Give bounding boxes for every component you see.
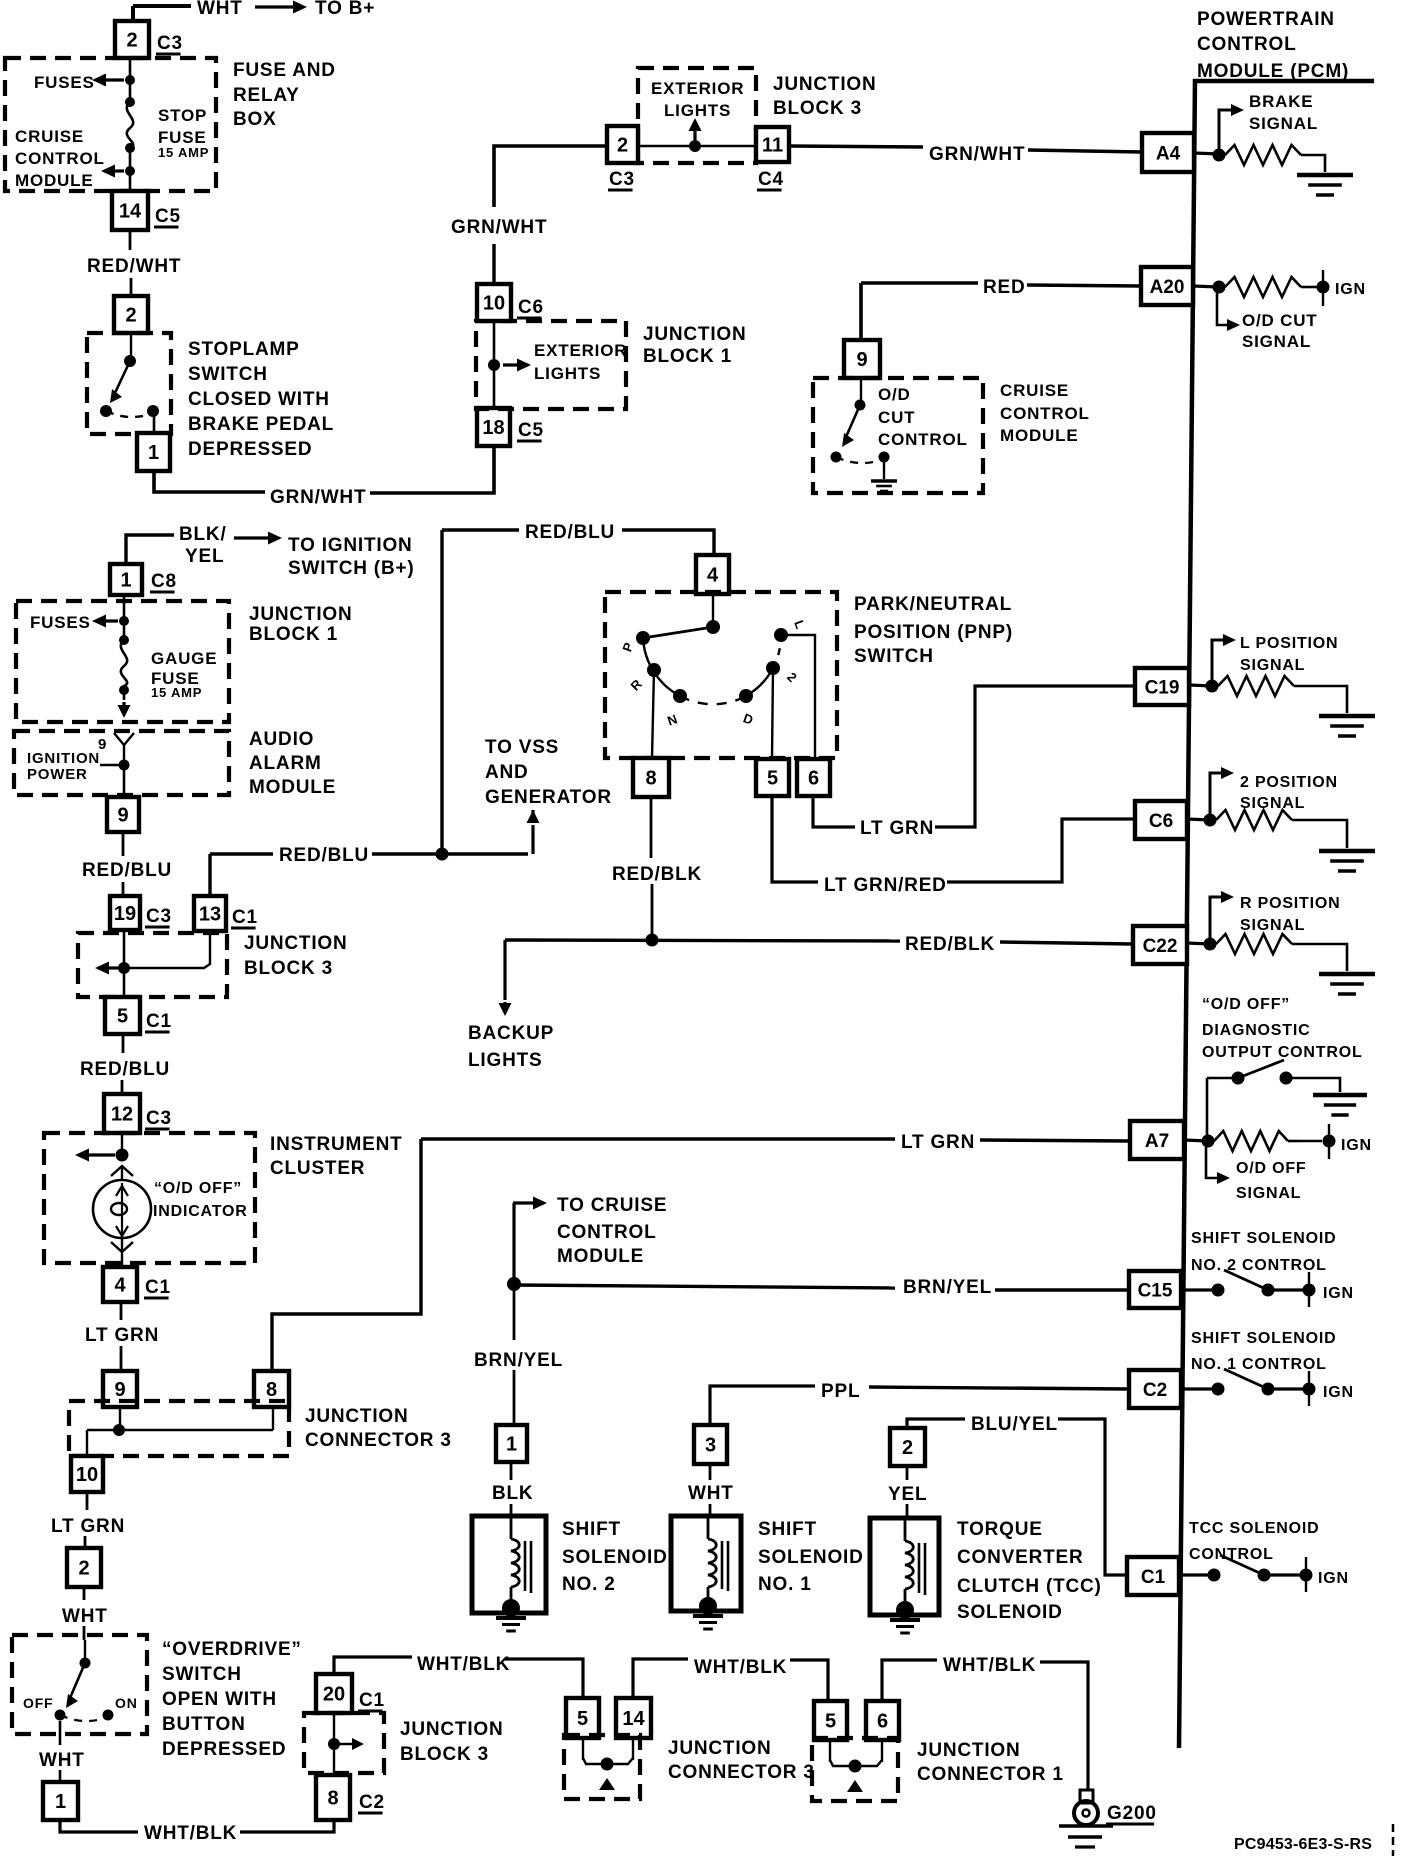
svg-text:YEL: YEL xyxy=(185,546,224,567)
svg-text:C2: C2 xyxy=(1143,1380,1167,1401)
svg-text:LIGHTS: LIGHTS xyxy=(468,1050,542,1071)
svg-text:15 AMP: 15 AMP xyxy=(151,685,202,700)
svg-text:CONTROL: CONTROL xyxy=(15,149,105,168)
svg-text:YEL: YEL xyxy=(888,1484,927,1505)
svg-text:11: 11 xyxy=(762,135,783,157)
svg-text:C4: C4 xyxy=(758,169,784,190)
svg-text:LIGHTS: LIGHTS xyxy=(534,364,601,383)
svg-text:TO IGNITION: TO IGNITION xyxy=(288,535,413,556)
svg-text:SOLENOID: SOLENOID xyxy=(957,1602,1063,1623)
svg-text:STOP: STOP xyxy=(158,106,207,125)
svg-text:WHT/BLK: WHT/BLK xyxy=(144,1823,237,1844)
svg-text:FUSES: FUSES xyxy=(34,73,95,92)
svg-text:POWERTRAIN: POWERTRAIN xyxy=(1197,9,1335,30)
svg-text:BUTTON: BUTTON xyxy=(162,1714,246,1735)
svg-text:WHT: WHT xyxy=(688,1483,734,1504)
svg-text:C1: C1 xyxy=(359,1690,385,1711)
svg-text:FUSES: FUSES xyxy=(30,613,91,632)
svg-text:SIGNAL: SIGNAL xyxy=(1236,1185,1301,1202)
svg-text:2: 2 xyxy=(78,1558,89,1580)
svg-text:WHT/BLK: WHT/BLK xyxy=(694,1657,787,1678)
svg-text:NO. 2: NO. 2 xyxy=(562,1574,616,1595)
svg-text:RELAY: RELAY xyxy=(233,85,300,106)
svg-text:SWITCH: SWITCH xyxy=(162,1664,242,1685)
svg-text:CONTROL: CONTROL xyxy=(557,1222,657,1243)
svg-text:TO VSS: TO VSS xyxy=(485,737,559,758)
svg-text:C5: C5 xyxy=(518,420,544,441)
svg-text:INSTRUMENT: INSTRUMENT xyxy=(270,1134,403,1155)
svg-text:RED/BLU: RED/BLU xyxy=(279,845,369,866)
svg-text:CUT: CUT xyxy=(878,408,915,427)
svg-text:LT GRN: LT GRN xyxy=(901,1132,975,1153)
svg-text:PC9453-6E3-S-RS: PC9453-6E3-S-RS xyxy=(1234,1836,1372,1853)
svg-text:SWITCH (B+): SWITCH (B+) xyxy=(288,558,414,579)
svg-text:ALARM: ALARM xyxy=(249,753,322,774)
svg-text:O/D CUT: O/D CUT xyxy=(1242,311,1317,330)
svg-text:A7: A7 xyxy=(1145,1131,1169,1152)
svg-text:IGN: IGN xyxy=(1335,281,1366,298)
svg-text:GRN/WHT: GRN/WHT xyxy=(270,487,366,508)
svg-text:A4: A4 xyxy=(1156,143,1181,164)
svg-text:IGN: IGN xyxy=(1341,1137,1372,1154)
svg-text:JUNCTION: JUNCTION xyxy=(400,1719,504,1740)
svg-text:“O/D OFF”: “O/D OFF” xyxy=(154,1180,242,1197)
svg-text:WHT/BLK: WHT/BLK xyxy=(417,1654,510,1675)
svg-text:MODULE: MODULE xyxy=(1000,426,1078,445)
svg-text:JUNCTION: JUNCTION xyxy=(773,74,877,95)
svg-text:FUSE AND: FUSE AND xyxy=(233,60,336,81)
svg-text:20: 20 xyxy=(323,1684,345,1706)
svg-text:MODULE: MODULE xyxy=(557,1246,644,1267)
svg-text:C8: C8 xyxy=(151,571,177,592)
svg-text:AND: AND xyxy=(485,762,529,783)
svg-text:SIGNAL: SIGNAL xyxy=(1240,795,1305,812)
svg-text:CONNECTOR 3: CONNECTOR 3 xyxy=(668,1762,815,1783)
svg-text:15 AMP: 15 AMP xyxy=(158,145,209,160)
svg-text:EXTERIOR: EXTERIOR xyxy=(651,79,744,98)
svg-text:STOPLAMP: STOPLAMP xyxy=(188,339,300,360)
svg-text:R POSITION: R POSITION xyxy=(1240,895,1340,912)
svg-text:JUNCTION: JUNCTION xyxy=(668,1738,772,1759)
svg-text:GENERATOR: GENERATOR xyxy=(485,787,612,808)
svg-text:JUNCTION: JUNCTION xyxy=(305,1406,409,1427)
svg-text:C19: C19 xyxy=(1145,677,1180,698)
svg-text:2: 2 xyxy=(126,30,137,52)
svg-text:“O/D OFF”: “O/D OFF” xyxy=(1202,996,1290,1013)
svg-text:4: 4 xyxy=(114,1275,126,1297)
svg-text:5: 5 xyxy=(825,1711,836,1733)
svg-text:C22: C22 xyxy=(1143,936,1178,957)
svg-text:CONNECTOR 3: CONNECTOR 3 xyxy=(305,1430,452,1451)
svg-text:2 POSITION: 2 POSITION xyxy=(1240,774,1338,791)
svg-text:IGNITION: IGNITION xyxy=(27,750,100,767)
svg-text:4: 4 xyxy=(707,565,719,587)
svg-text:GRN/WHT: GRN/WHT xyxy=(929,144,1025,165)
svg-text:14: 14 xyxy=(119,201,142,223)
svg-text:CLUSTER: CLUSTER xyxy=(270,1158,365,1179)
svg-text:WHT: WHT xyxy=(62,1606,108,1627)
svg-text:9: 9 xyxy=(114,1379,125,1401)
svg-text:C1: C1 xyxy=(232,907,258,928)
svg-text:GAUGE: GAUGE xyxy=(151,649,217,668)
svg-text:9: 9 xyxy=(856,349,867,371)
svg-text:C1: C1 xyxy=(146,1011,172,1032)
svg-text:RED/BLU: RED/BLU xyxy=(525,522,615,543)
svg-text:SWITCH: SWITCH xyxy=(854,646,934,667)
svg-text:BRN/YEL: BRN/YEL xyxy=(903,1277,992,1298)
svg-text:TORQUE: TORQUE xyxy=(957,1519,1043,1540)
svg-text:SOLENOID: SOLENOID xyxy=(758,1547,864,1568)
svg-text:WHT/BLK: WHT/BLK xyxy=(943,1655,1036,1676)
svg-text:L POSITION: L POSITION xyxy=(1240,635,1338,652)
svg-text:OFF: OFF xyxy=(23,1695,53,1711)
svg-text:C3: C3 xyxy=(146,906,172,927)
svg-text:10: 10 xyxy=(483,293,505,315)
svg-text:ON: ON xyxy=(115,1695,138,1711)
svg-text:6: 6 xyxy=(808,768,819,790)
svg-text:PPL: PPL xyxy=(821,1381,860,1402)
svg-text:12: 12 xyxy=(111,1104,133,1126)
svg-text:BACKUP: BACKUP xyxy=(468,1023,554,1044)
svg-text:OPEN WITH: OPEN WITH xyxy=(162,1689,277,1710)
svg-text:SIGNAL: SIGNAL xyxy=(1249,114,1318,133)
svg-text:RED/BLK: RED/BLK xyxy=(612,864,702,885)
svg-text:BOX: BOX xyxy=(233,109,277,130)
svg-text:NO. 2 CONTROL: NO. 2 CONTROL xyxy=(1191,1257,1327,1274)
svg-text:2: 2 xyxy=(125,305,136,327)
svg-text:GRN/WHT: GRN/WHT xyxy=(451,217,547,238)
svg-text:LIGHTS: LIGHTS xyxy=(664,101,731,120)
svg-text:BLK: BLK xyxy=(492,1483,533,1504)
svg-text:19: 19 xyxy=(114,903,136,925)
svg-text:C2: C2 xyxy=(359,1792,385,1813)
svg-text:SHIFT: SHIFT xyxy=(562,1519,621,1540)
svg-text:C5: C5 xyxy=(155,206,181,227)
svg-text:TCC SOLENOID: TCC SOLENOID xyxy=(1189,1520,1320,1537)
svg-text:TO B+: TO B+ xyxy=(315,0,375,19)
svg-text:NO. 1 CONTROL: NO. 1 CONTROL xyxy=(1191,1356,1327,1373)
svg-text:BLOCK 3: BLOCK 3 xyxy=(244,958,333,979)
svg-text:RED/BLU: RED/BLU xyxy=(80,1059,170,1080)
svg-text:5: 5 xyxy=(117,1006,128,1028)
svg-text:1: 1 xyxy=(120,570,131,592)
svg-text:WHT: WHT xyxy=(39,1750,85,1771)
svg-text:8: 8 xyxy=(266,1379,277,1401)
svg-text:BLOCK 3: BLOCK 3 xyxy=(400,1744,489,1765)
svg-text:DEPRESSED: DEPRESSED xyxy=(162,1739,286,1760)
svg-text:WHT: WHT xyxy=(197,0,243,19)
svg-text:SWITCH: SWITCH xyxy=(188,364,268,385)
svg-text:POSITION (PNP): POSITION (PNP) xyxy=(854,622,1013,643)
svg-text:C3: C3 xyxy=(146,1108,172,1129)
svg-text:LT GRN: LT GRN xyxy=(51,1516,125,1537)
svg-text:CONVERTER: CONVERTER xyxy=(957,1547,1084,1568)
svg-text:BLOCK 1: BLOCK 1 xyxy=(643,346,732,367)
svg-text:BRAKE: BRAKE xyxy=(1249,92,1313,111)
svg-text:IGN: IGN xyxy=(1318,1570,1349,1587)
svg-text:CONTROL: CONTROL xyxy=(878,430,968,449)
svg-text:BLU/YEL: BLU/YEL xyxy=(971,1414,1058,1435)
svg-text:CONTROL: CONTROL xyxy=(1197,34,1297,55)
svg-text:C1: C1 xyxy=(145,1277,171,1298)
svg-text:C6: C6 xyxy=(1149,811,1173,832)
svg-text:C3: C3 xyxy=(157,33,183,54)
svg-text:C1: C1 xyxy=(1141,1567,1166,1588)
svg-text:DIAGNOSTIC: DIAGNOSTIC xyxy=(1202,1022,1310,1039)
svg-text:C6: C6 xyxy=(518,297,544,318)
svg-text:10: 10 xyxy=(76,1464,98,1486)
svg-text:1: 1 xyxy=(506,1434,517,1456)
svg-text:A20: A20 xyxy=(1150,277,1185,298)
svg-text:RED: RED xyxy=(983,277,1026,298)
svg-text:AUDIO: AUDIO xyxy=(249,729,314,750)
svg-text:1: 1 xyxy=(148,442,159,464)
svg-text:MODULE: MODULE xyxy=(249,777,336,798)
svg-text:“OVERDRIVE”: “OVERDRIVE” xyxy=(162,1639,302,1660)
svg-text:O/D: O/D xyxy=(878,385,911,404)
svg-text:5: 5 xyxy=(577,1708,588,1730)
svg-text:INDICATOR: INDICATOR xyxy=(153,1203,248,1220)
svg-text:SOLENOID: SOLENOID xyxy=(562,1547,668,1568)
svg-text:DEPRESSED: DEPRESSED xyxy=(188,439,312,460)
svg-text:SHIFT SOLENOID: SHIFT SOLENOID xyxy=(1191,1330,1336,1347)
svg-text:PARK/NEUTRAL: PARK/NEUTRAL xyxy=(854,594,1012,615)
svg-text:JUNCTION: JUNCTION xyxy=(244,933,348,954)
svg-text:NO. 1: NO. 1 xyxy=(758,1574,812,1595)
svg-text:BLK/: BLK/ xyxy=(179,524,227,545)
svg-text:C15: C15 xyxy=(1138,1280,1173,1301)
svg-text:6: 6 xyxy=(877,1711,888,1733)
svg-text:8: 8 xyxy=(645,768,656,790)
svg-text:CONTROL: CONTROL xyxy=(1000,404,1090,423)
svg-text:BRN/YEL: BRN/YEL xyxy=(474,1350,563,1371)
svg-text:3: 3 xyxy=(705,1435,716,1457)
svg-text:BLOCK 1: BLOCK 1 xyxy=(249,624,338,645)
svg-text:IGN: IGN xyxy=(1323,1384,1354,1401)
svg-text:CRUISE: CRUISE xyxy=(15,127,84,146)
svg-text:2: 2 xyxy=(617,135,628,157)
svg-text:SHIFT: SHIFT xyxy=(758,1519,817,1540)
svg-text:RED/BLU: RED/BLU xyxy=(82,860,172,881)
svg-text:EXTERIOR: EXTERIOR xyxy=(534,341,627,360)
svg-text:POWER: POWER xyxy=(27,766,88,783)
svg-text:JUNCTION: JUNCTION xyxy=(917,1740,1021,1761)
svg-text:LT GRN: LT GRN xyxy=(860,818,934,839)
svg-text:1: 1 xyxy=(55,1791,66,1813)
svg-text:BLOCK 3: BLOCK 3 xyxy=(773,98,862,119)
svg-text:LT GRN/RED: LT GRN/RED xyxy=(824,875,947,896)
svg-text:18: 18 xyxy=(482,417,504,439)
svg-text:CLUTCH (TCC): CLUTCH (TCC) xyxy=(957,1576,1102,1597)
svg-text:8: 8 xyxy=(327,1788,338,1810)
svg-text:O/D OFF: O/D OFF xyxy=(1236,1160,1306,1177)
svg-text:RED/WHT: RED/WHT xyxy=(87,256,181,277)
svg-text:14: 14 xyxy=(622,1708,645,1730)
svg-text:TO CRUISE: TO CRUISE xyxy=(557,1195,667,1216)
svg-text:MODULE: MODULE xyxy=(15,171,93,190)
svg-text:CLOSED WITH: CLOSED WITH xyxy=(188,389,330,410)
svg-text:SIGNAL: SIGNAL xyxy=(1240,657,1305,674)
svg-text:SIGNAL: SIGNAL xyxy=(1242,332,1311,351)
svg-text:LT GRN: LT GRN xyxy=(85,1325,159,1346)
svg-text:JUNCTION: JUNCTION xyxy=(249,604,353,625)
svg-text:JUNCTION: JUNCTION xyxy=(643,324,747,345)
svg-text:2: 2 xyxy=(902,1437,913,1459)
svg-text:5: 5 xyxy=(767,768,778,790)
svg-text:9: 9 xyxy=(117,805,128,827)
svg-text:BRAKE PEDAL: BRAKE PEDAL xyxy=(188,414,334,435)
svg-text:13: 13 xyxy=(199,904,221,926)
svg-text:C3: C3 xyxy=(609,169,635,190)
svg-text:IGN: IGN xyxy=(1323,1285,1354,1302)
svg-text:CRUISE: CRUISE xyxy=(1000,381,1069,400)
svg-text:OUTPUT CONTROL: OUTPUT CONTROL xyxy=(1202,1044,1363,1061)
svg-text:SHIFT SOLENOID: SHIFT SOLENOID xyxy=(1191,1230,1336,1247)
svg-text:CONNECTOR 1: CONNECTOR 1 xyxy=(917,1764,1064,1785)
svg-text:RED/BLK: RED/BLK xyxy=(905,934,995,955)
svg-text:SIGNAL: SIGNAL xyxy=(1240,917,1305,934)
svg-text:G200: G200 xyxy=(1107,1803,1157,1824)
